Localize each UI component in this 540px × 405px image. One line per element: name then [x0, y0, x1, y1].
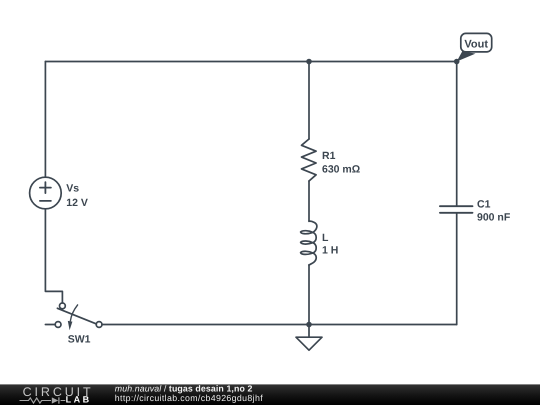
svg-text:L: L — [322, 232, 329, 244]
node Vout flag — [457, 33, 492, 61]
svg-text:LAB: LAB — [66, 395, 92, 405]
resistor R1 — [302, 139, 317, 181]
switch SW1 — [55, 303, 102, 330]
wire right vertical upper — [456, 62, 458, 207]
node junction bottom middle — [306, 322, 312, 328]
svg-text:Vout: Vout — [464, 39, 488, 51]
svg-text:900 nF: 900 nF — [477, 211, 511, 223]
svg-text:Vs: Vs — [66, 183, 79, 195]
wire middle vertical lower — [308, 265, 310, 325]
wire left vertical upper — [44, 62, 46, 178]
svg-text:12 V: 12 V — [66, 197, 88, 209]
svg-text:muh.nauval / tugas desain 1,no: muh.nauval / tugas desain 1,no 2 — [115, 383, 253, 393]
wire top horizontal — [45, 61, 456, 63]
wire middle vertical upper — [308, 62, 310, 140]
node junction top middle — [306, 59, 312, 65]
wire right vertical lower — [456, 213, 458, 325]
svg-text:C1: C1 — [477, 199, 491, 211]
svg-text:630 mΩ: 630 mΩ — [322, 163, 360, 175]
wire middle between R1 and L — [308, 181, 310, 221]
inductor L — [301, 221, 317, 265]
label R1 — [322, 150, 360, 175]
label L — [322, 232, 338, 256]
voltage source Vs — [30, 177, 62, 209]
node Vout junction — [454, 59, 460, 65]
label Vs — [66, 183, 88, 209]
capacitor C1 — [440, 206, 473, 213]
label C1 — [477, 199, 511, 224]
wire switch left stub — [45, 324, 55, 326]
logo squiggle resistor-diode — [20, 397, 66, 403]
wire left vertical lower — [45, 209, 62, 303]
svg-text:1 H: 1 H — [322, 245, 338, 257]
svg-text:http://circuitlab.com/cb4926gd: http://circuitlab.com/cb4926gdu8jhf — [115, 393, 263, 403]
wire bottom horizontal — [102, 324, 457, 326]
ground — [296, 325, 322, 351]
svg-text:R1: R1 — [322, 150, 336, 162]
svg-text:SW1: SW1 — [68, 334, 91, 346]
